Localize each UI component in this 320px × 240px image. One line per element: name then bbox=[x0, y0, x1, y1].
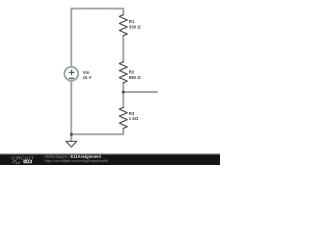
wire tap output from node between R2 and R3 bbox=[123, 91, 157, 93]
svg-text:1 kΩ: 1 kΩ bbox=[129, 116, 139, 121]
wire between R1 and R2 bbox=[122, 36, 124, 62]
svg-text:http://circuitlab.com/c/kg8hqw: http://circuitlab.com/c/kg8hqw6nv8e bbox=[45, 158, 109, 163]
CircuitLab logo LAB chip bbox=[23, 160, 32, 164]
resistor R2 zigzag bbox=[119, 62, 127, 83]
ground symbol triangle bbox=[66, 141, 77, 147]
junction node at bottom of source bbox=[70, 133, 73, 136]
svg-text:330 Ω: 330 Ω bbox=[129, 24, 141, 29]
svg-text:R1: R1 bbox=[129, 19, 135, 24]
svg-text:10 V: 10 V bbox=[83, 75, 92, 80]
wire between R2 and R3 bbox=[122, 83, 124, 108]
wire right vertical stub top bbox=[122, 9, 124, 15]
wire below R3 bbox=[122, 129, 124, 135]
voltage source V1 circle body bbox=[64, 67, 78, 81]
wire bottom horizontal bbox=[71, 133, 123, 135]
voltage source minus sign bbox=[69, 77, 73, 79]
wire left vertical lower bbox=[70, 81, 72, 135]
resistor R1 zigzag bbox=[119, 15, 127, 36]
svg-text:Vin: Vin bbox=[83, 70, 90, 75]
resistor R3 zigzag bbox=[119, 107, 127, 128]
wire left vertical upper bbox=[70, 9, 72, 68]
svg-text:680 Ω: 680 Ω bbox=[129, 75, 141, 80]
wire ground stub bbox=[70, 134, 72, 141]
svg-text:LAB: LAB bbox=[25, 160, 32, 164]
voltage source plus sign bbox=[69, 70, 73, 74]
wire top horizontal bbox=[71, 8, 123, 10]
CircuitLab logo waveform bbox=[12, 161, 21, 164]
junction node between R2 and R3 bbox=[122, 91, 125, 94]
footer bar bbox=[0, 154, 220, 165]
